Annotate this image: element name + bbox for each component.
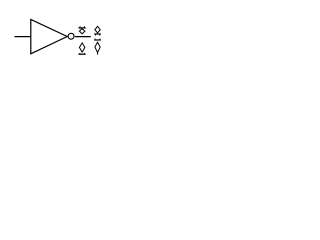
inverter U1 output bubble <box>68 33 74 39</box>
diode D4 (bottom-right) <box>94 39 101 55</box>
wire input <box>15 36 31 38</box>
diode D3 (top-right) <box>94 26 101 35</box>
inverter U1 triangle <box>31 19 67 53</box>
diode D2 (bottom-left) <box>78 43 85 54</box>
wire stub below D4 <box>97 53 99 55</box>
diode D1 (top-left) <box>78 26 85 34</box>
wire output <box>75 36 91 38</box>
